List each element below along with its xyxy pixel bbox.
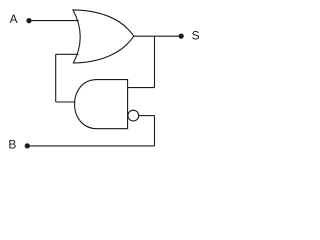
wire B branch vertical — [154, 116, 156, 146]
inverter bubble on U2 bottom input — [128, 110, 139, 121]
and-gate U2 (mirrored, inverted bottom input) — [75, 80, 128, 129]
svg-text:A: A — [10, 12, 18, 26]
svg-text:S: S — [192, 29, 200, 43]
wire feedback vertical — [55, 54, 57, 102]
node A terminal dot — [26, 18, 31, 23]
wire bubble to B branch — [139, 115, 155, 117]
wire AND output to feedback — [56, 101, 76, 103]
wire A to OR gate top input — [29, 20, 79, 22]
or-gate U1 — [73, 10, 134, 63]
wire OR output to node S — [134, 35, 181, 37]
node B terminal dot — [25, 143, 30, 148]
wire S branch vertical to AND top input — [154, 36, 156, 87]
wire into AND gate top input — [128, 87, 155, 89]
wire feedback horizontal to OR bottom input — [56, 53, 79, 55]
svg-text:B: B — [8, 138, 16, 152]
node S terminal dot — [179, 34, 184, 39]
wire B horizontal — [27, 145, 154, 147]
